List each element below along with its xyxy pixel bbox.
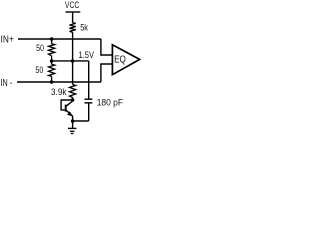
wire cap bottom lead — [88, 103, 90, 121]
svg-text:1.5V: 1.5V — [79, 50, 95, 60]
transistor Q1 collector lead — [66, 100, 72, 106]
resistor R2 50 (top) — [49, 39, 55, 61]
transistor Q1 base bar — [65, 105, 67, 112]
node emitter/ground junction — [71, 119, 75, 123]
svg-text:50: 50 — [35, 65, 43, 75]
VCC rail bar — [66, 11, 81, 13]
node 1.5V junction (R50 mid-tap) — [50, 59, 54, 63]
wire 5k down to 1.5V node (crosses IN+ line, no connect) — [72, 32, 74, 61]
resistor R1 5k zigzag — [70, 23, 76, 33]
svg-text:IN -: IN - — [1, 78, 13, 89]
svg-text:180 pF: 180 pF — [97, 97, 124, 107]
node collector junction — [71, 98, 75, 102]
wire collector to base (diode connection) — [61, 100, 73, 110]
node junction rail / 5k branch — [71, 59, 75, 63]
wire IN- to EQ lower input — [101, 64, 113, 82]
node junction IN+ / R50 top — [50, 37, 54, 41]
transistor Q1 emitter lead with arrow — [66, 110, 72, 121]
svg-text:VCC: VCC — [65, 0, 79, 11]
wire IN+ horizontal — [18, 38, 101, 40]
resistor R4 3.9k zigzag — [70, 85, 76, 98]
capacitor C1 plates — [85, 98, 93, 100]
wire VCC bar to resistor 5k — [72, 12, 74, 23]
wire 1.5V node rail — [52, 60, 89, 62]
wire rail corner down to cap top (crosses IN- line, no connect) — [88, 61, 90, 99]
ground — [68, 121, 76, 134]
svg-text:50: 50 — [36, 43, 44, 53]
svg-text:3.9k: 3.9k — [51, 87, 67, 97]
wire 1.5V node down to 3.9k (crosses IN- line, no connect) — [72, 61, 74, 85]
wire emitter node to cap bottom — [73, 120, 89, 122]
svg-text:EQ: EQ — [114, 53, 126, 65]
wire 3.9k to collector node — [72, 98, 74, 101]
wire IN- horizontal — [17, 81, 101, 83]
resistor R3 50 (bottom) — [49, 61, 55, 82]
wire IN+ to EQ upper input — [101, 39, 113, 55]
svg-text:IN+: IN+ — [1, 35, 14, 46]
svg-text:5k: 5k — [80, 23, 88, 33]
op-amp U1 EQ triangle — [112, 45, 139, 75]
node junction IN- / R50 bottom — [50, 80, 54, 84]
